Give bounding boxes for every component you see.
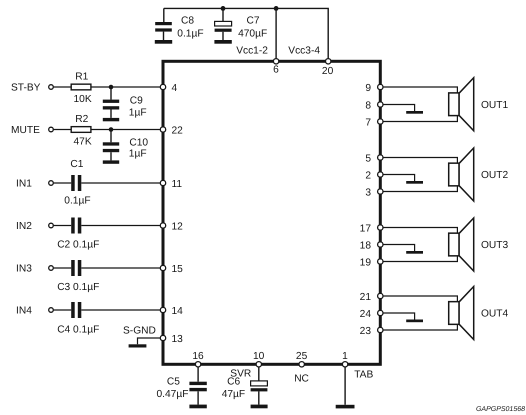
svg-text:15: 15: [172, 264, 184, 275]
speaker OUT3: [449, 218, 474, 271]
svg-text:R1: R1: [75, 72, 88, 83]
svg-text:0.1µF: 0.1µF: [177, 29, 203, 40]
svg-text:Vcc1-2: Vcc1-2: [236, 46, 268, 57]
svg-text:18: 18: [360, 240, 372, 251]
capacitor C5: [157, 367, 207, 404]
svg-text:TAB: TAB: [354, 369, 373, 380]
pin 24: [360, 309, 383, 320]
svg-text:17: 17: [360, 223, 372, 234]
wire IN3 terminal to C3: [54, 267, 72, 269]
terminal IN2: [49, 223, 54, 228]
pin 13: [160, 334, 183, 345]
svg-text:OUT3: OUT3: [481, 240, 509, 251]
wire pin 2 to ground: [383, 175, 415, 182]
pin 20: [322, 59, 334, 77]
svg-text:5: 5: [365, 153, 371, 164]
pin 21: [360, 292, 383, 303]
svg-text:47K: 47K: [74, 136, 92, 147]
pin 5: [365, 153, 383, 164]
wire pin 9 to speaker OUT1: [383, 87, 457, 122]
svg-text:4: 4: [172, 83, 178, 94]
wire pin 21 to speaker OUT4: [383, 296, 457, 330]
capacitor C4: [57, 302, 99, 335]
pin 12: [160, 221, 183, 232]
svg-text:C7: C7: [247, 16, 260, 27]
pin 19: [360, 257, 383, 268]
pin 4: [160, 83, 177, 94]
svg-text:C3 0.1µF: C3 0.1µF: [57, 282, 99, 293]
svg-text:13: 13: [172, 334, 184, 345]
pin 3: [365, 187, 383, 198]
terminal MUTE: [49, 127, 54, 132]
svg-text:R2: R2: [75, 114, 88, 125]
ground (C5): [189, 405, 206, 409]
svg-text:Vcc3-4: Vcc3-4: [288, 46, 320, 57]
ground (OUT2 center tap): [406, 181, 423, 184]
svg-text:C5: C5: [167, 376, 180, 387]
svg-text:C10: C10: [129, 138, 148, 149]
svg-text:C8: C8: [181, 16, 194, 27]
capacitor C9: [103, 87, 119, 118]
svg-text:IN1: IN1: [16, 179, 32, 190]
svg-text:6: 6: [273, 64, 279, 75]
wire C2 to pin 12: [81, 225, 163, 227]
svg-text:20: 20: [322, 66, 334, 77]
terminal IN4: [49, 308, 54, 313]
svg-text:MUTE: MUTE: [11, 125, 40, 136]
pin 18: [360, 240, 383, 251]
resistor R2: [71, 114, 92, 147]
svg-text:22: 22: [172, 125, 184, 136]
wire pin 17 to speaker OUT3: [383, 228, 457, 262]
ground (OUT3 center tap): [406, 251, 423, 254]
svg-text:C1: C1: [70, 159, 83, 170]
capacitor C3: [57, 260, 99, 293]
svg-text:C4 0.1µF: C4 0.1µF: [57, 324, 99, 335]
ground (OUT1 center tap): [406, 111, 423, 114]
ground (C8): [155, 40, 172, 44]
wire pin 1 to ground: [344, 367, 346, 405]
svg-text:OUT1: OUT1: [481, 100, 509, 111]
wire C4 to pin 14: [81, 309, 163, 311]
ground (S-GND): [129, 344, 147, 347]
svg-text:OUT2: OUT2: [481, 170, 509, 181]
ground (OUT4 center tap): [406, 320, 423, 323]
wire C1 to pin 11: [81, 182, 163, 184]
wire IN1 terminal to C1: [54, 182, 72, 184]
capacitor C2: [57, 218, 99, 251]
junction R2/C10 node: [109, 127, 114, 132]
pin 11: [160, 179, 182, 190]
pin 10: [253, 351, 265, 367]
wire IN2 terminal to C2: [54, 225, 72, 227]
svg-text:1µF: 1µF: [129, 107, 147, 118]
speaker OUT4: [449, 287, 474, 340]
svg-text:0.1µF: 0.1µF: [64, 196, 90, 207]
svg-text:23: 23: [360, 326, 372, 337]
terminal IN3: [49, 266, 54, 271]
capacitor C8: [155, 8, 172, 40]
pin 9: [365, 83, 383, 94]
svg-text:1: 1: [342, 351, 348, 362]
pin 2: [365, 170, 383, 181]
svg-text:ST-BY: ST-BY: [11, 83, 41, 94]
capacitor C10: [103, 130, 119, 161]
svg-text:11: 11: [172, 179, 183, 190]
svg-text:2: 2: [365, 170, 371, 181]
pin 17: [360, 223, 383, 234]
svg-text:7: 7: [365, 117, 371, 128]
svg-text:3: 3: [365, 187, 371, 198]
ground (C10): [103, 160, 119, 163]
svg-text:24: 24: [360, 309, 372, 320]
ground (C6): [251, 405, 268, 409]
pin 6: [273, 59, 279, 76]
capacitor C1: [64, 159, 90, 207]
wire C3 to pin 15: [81, 267, 163, 269]
svg-text:1µF: 1µF: [129, 149, 147, 160]
pin 22: [160, 125, 183, 136]
junction on rail above C7: [221, 6, 226, 11]
svg-text:OUT4: OUT4: [481, 309, 509, 320]
svg-text:14: 14: [172, 306, 184, 317]
wire pin 8 to ground: [383, 105, 415, 112]
resistor R1: [71, 72, 92, 105]
junction R1/C9 node: [109, 85, 114, 90]
pin 7: [365, 117, 383, 128]
svg-text:IN3: IN3: [16, 264, 32, 275]
svg-text:C6: C6: [227, 376, 240, 387]
svg-text:470µF: 470µF: [238, 29, 267, 40]
pin 8: [365, 100, 383, 111]
svg-text:S-GND: S-GND: [123, 325, 156, 336]
ground (TAB): [336, 405, 355, 409]
wire Vcc1-2 branch to pin 6: [275, 8, 277, 59]
svg-text:47µF: 47µF: [222, 389, 245, 400]
svg-text:19: 19: [360, 257, 372, 268]
svg-text:C9: C9: [130, 96, 143, 107]
wire Vcc rail: [164, 8, 328, 59]
pin 15: [160, 264, 183, 275]
wire MUTE terminal to R2: [54, 129, 72, 131]
svg-text:8: 8: [365, 100, 371, 111]
svg-text:12: 12: [172, 221, 184, 232]
terminal ST-BY: [49, 85, 54, 90]
wire pin 24 to ground: [383, 313, 415, 320]
svg-text:9: 9: [365, 83, 371, 94]
wire R1 to pin 4: [91, 86, 163, 88]
svg-text:25: 25: [296, 351, 308, 362]
svg-text:10: 10: [253, 351, 265, 362]
ground (C7): [214, 40, 231, 44]
wire pin 18 to ground: [383, 245, 415, 252]
svg-text:16: 16: [192, 351, 204, 362]
pin 1: [342, 351, 348, 367]
svg-text:IN4: IN4: [16, 306, 32, 317]
pin 23: [360, 326, 383, 337]
capacitor C7 (electrolytic): [215, 8, 232, 40]
junction on rail above pin 6: [274, 6, 279, 11]
ground (C9): [103, 118, 119, 121]
capacitor C6 (electrolytic): [222, 367, 268, 404]
wire ST-BY terminal to R1: [54, 86, 72, 88]
speaker OUT1: [449, 78, 474, 131]
svg-text:0.47µF: 0.47µF: [157, 389, 189, 400]
svg-text:IN2: IN2: [16, 221, 32, 232]
svg-text:21: 21: [360, 292, 372, 303]
speaker OUT2: [449, 148, 474, 201]
wire pin 13 to S-GND ground: [138, 338, 164, 344]
IC body U1: [163, 61, 380, 364]
wire IN4 terminal to C4: [54, 309, 72, 311]
wire pin 5 to speaker OUT2: [383, 158, 457, 192]
svg-text:GAPGPS01568: GAPGPS01568: [476, 406, 525, 413]
pin 16: [192, 351, 204, 367]
svg-text:NC: NC: [294, 374, 309, 385]
pin 14: [160, 306, 183, 317]
svg-text:10K: 10K: [74, 94, 92, 105]
svg-text:C2 0.1µF: C2 0.1µF: [57, 240, 99, 251]
terminal IN1: [49, 181, 54, 186]
wire R2 to pin 22: [91, 129, 163, 131]
pin 25: [296, 351, 308, 367]
